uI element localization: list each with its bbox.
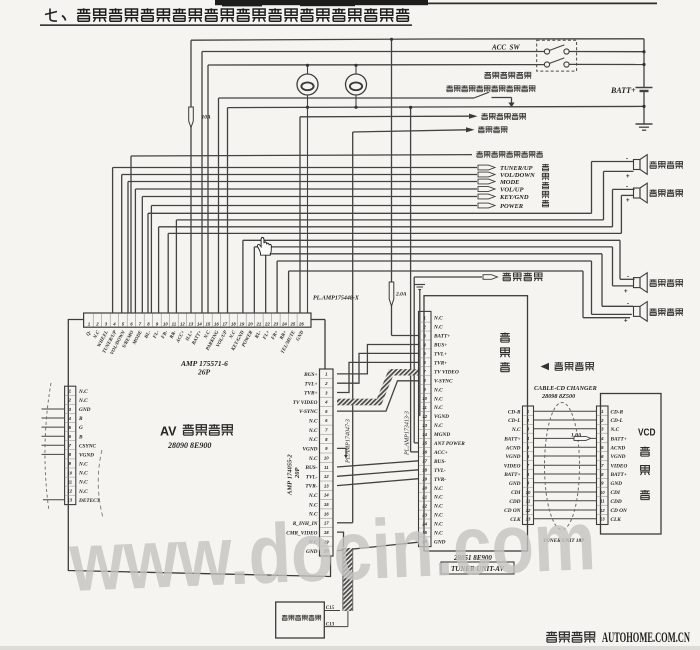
svg-text:BUS-: BUS- <box>433 459 446 465</box>
svg-text:12: 12 <box>180 322 185 327</box>
svg-text:12: 12 <box>422 414 427 419</box>
svg-text:16: 16 <box>422 450 427 455</box>
svg-text:TV VIDEO: TV VIDEO <box>434 369 459 375</box>
svg-text:N.C: N.C <box>308 437 318 443</box>
svg-text:N.C: N.C <box>308 456 318 462</box>
svg-text:13: 13 <box>67 498 72 503</box>
svg-text:20: 20 <box>421 486 427 491</box>
svg-text:13: 13 <box>189 322 194 327</box>
svg-text:-: - <box>627 301 629 307</box>
svg-text:N.C: N.C <box>433 396 443 402</box>
svg-text:4: 4 <box>112 322 116 327</box>
svg-text:GND: GND <box>611 481 623 487</box>
svg-text:V-SYNC: V-SYNC <box>434 378 453 384</box>
svg-text:BATT+: BATT+ <box>610 472 627 478</box>
svg-text:13: 13 <box>422 423 427 428</box>
svg-text:N.C: N.C <box>78 480 88 486</box>
svg-text:11: 11 <box>422 405 427 410</box>
svg-text:23: 23 <box>273 322 279 327</box>
svg-text:N.C: N.C <box>511 427 521 433</box>
svg-text:CLK: CLK <box>611 517 622 523</box>
svg-text:G: G <box>79 425 83 431</box>
svg-text:TVR-: TVR- <box>305 484 317 490</box>
svg-text:VCD: VCD <box>638 427 656 439</box>
svg-text:TVL-: TVL- <box>434 468 446 474</box>
svg-text:MGND: MGND <box>433 432 450 438</box>
svg-text:AMP 174055-2: AMP 174055-2 <box>287 454 294 496</box>
svg-text:CDI: CDI <box>611 490 621 496</box>
svg-text:ANT POWER: ANT POWER <box>433 441 465 447</box>
svg-text:28098 8Z500: 28098 8Z500 <box>541 393 575 400</box>
svg-text:PL.AMP175448-X: PL.AMP175448-X <box>313 296 360 302</box>
svg-text:2.0A: 2.0A <box>395 292 407 298</box>
svg-text:TUNER/UP: TUNER/UP <box>500 165 534 172</box>
svg-text:+: + <box>626 174 630 180</box>
svg-text:-: - <box>627 274 629 280</box>
svg-text:19: 19 <box>422 477 427 482</box>
svg-text:BUS+: BUS+ <box>433 343 447 349</box>
svg-text:25: 25 <box>290 322 296 327</box>
svg-text:N.C: N.C <box>308 493 318 499</box>
svg-text:10: 10 <box>67 470 72 475</box>
svg-text:CD ON: CD ON <box>611 508 628 514</box>
svg-text:VGND: VGND <box>79 453 94 459</box>
svg-text:VGND: VGND <box>611 454 626 460</box>
svg-text:B: B <box>78 434 83 440</box>
svg-text:18: 18 <box>422 468 427 473</box>
svg-text:VGND: VGND <box>302 447 317 453</box>
svg-text:TVR+: TVR+ <box>304 391 317 397</box>
svg-text:+: + <box>624 289 628 295</box>
svg-text:V-SYNC: V-SYNC <box>299 409 318 415</box>
svg-text:13: 13 <box>600 517 605 522</box>
svg-text:14: 14 <box>422 432 427 437</box>
svg-text:BATT+: BATT+ <box>433 334 450 340</box>
svg-text:CD-R: CD-R <box>611 409 624 415</box>
svg-text:GND: GND <box>509 481 521 487</box>
svg-text:KEY/GND: KEY/GND <box>499 194 529 201</box>
svg-text:28090 8E900: 28090 8E900 <box>167 441 211 450</box>
svg-text:21: 21 <box>421 494 427 499</box>
svg-text:CSYNC: CSYNC <box>79 443 97 449</box>
svg-text:+: + <box>624 319 628 325</box>
svg-text:CD-L: CD-L <box>508 418 520 424</box>
svg-text:-: - <box>626 156 628 162</box>
svg-text:15: 15 <box>206 322 211 327</box>
svg-text:AUTOHOME.COM.CN: AUTOHOME.COM.CN <box>602 630 690 646</box>
svg-text:TVR-: TVR- <box>434 477 446 483</box>
svg-text:VIDEO: VIDEO <box>504 463 521 469</box>
svg-text:N.C: N.C <box>433 405 443 411</box>
svg-text:CD-L: CD-L <box>611 418 623 424</box>
svg-text:N.C: N.C <box>78 389 88 395</box>
svg-text:20: 20 <box>247 322 253 327</box>
svg-text:CDD: CDD <box>611 499 622 505</box>
svg-text:12: 12 <box>67 489 72 494</box>
svg-text:GND: GND <box>79 407 91 413</box>
svg-text:N.C: N.C <box>78 398 88 404</box>
svg-text:22: 22 <box>264 322 270 327</box>
svg-text:N.C: N.C <box>433 387 443 393</box>
svg-text:N.C: N.C <box>78 462 88 468</box>
svg-text:BATT+: BATT+ <box>610 437 627 443</box>
svg-text:12: 12 <box>600 508 605 513</box>
svg-text:POWER: POWER <box>500 203 524 210</box>
svg-text:DETECT: DETECT <box>78 498 101 504</box>
svg-text:AV: AV <box>160 425 177 439</box>
svg-text:TVL-: TVL- <box>306 474 318 480</box>
svg-text:14: 14 <box>324 493 329 498</box>
svg-text:+: + <box>626 198 630 204</box>
svg-text:BATT+: BATT+ <box>503 437 520 443</box>
svg-text:10: 10 <box>526 490 531 495</box>
svg-text:MODE: MODE <box>499 179 520 186</box>
svg-text:ACC SW: ACC SW <box>491 44 520 52</box>
svg-text:-: - <box>626 184 628 190</box>
svg-text:BUS-: BUS- <box>304 465 317 471</box>
svg-text:CABLE-CD CHANGER: CABLE-CD CHANGER <box>534 385 597 392</box>
svg-text:VOL/UP: VOL/UP <box>500 186 525 193</box>
svg-text:BUS+: BUS+ <box>303 372 317 378</box>
svg-text:ACC+: ACC+ <box>433 450 448 456</box>
svg-text:12: 12 <box>324 474 329 479</box>
svg-text:PL.AMP173413-3: PL.AMP173413-3 <box>404 411 411 456</box>
svg-text:26P: 26P <box>197 368 211 377</box>
svg-text:17: 17 <box>223 322 228 327</box>
svg-text:2: 2 <box>95 322 99 327</box>
svg-text:24: 24 <box>281 322 287 327</box>
svg-text:N.C: N.C <box>433 486 443 492</box>
svg-text:21: 21 <box>256 322 262 327</box>
svg-text:13: 13 <box>324 483 329 488</box>
svg-text:BATT+: BATT+ <box>610 86 636 95</box>
svg-text:VGND: VGND <box>505 454 520 460</box>
svg-text:10: 10 <box>422 396 427 401</box>
svg-text:N.C: N.C <box>78 471 88 477</box>
svg-text:14: 14 <box>197 322 202 327</box>
svg-text:16: 16 <box>214 322 219 327</box>
svg-text:N.C: N.C <box>433 423 443 429</box>
svg-text:VOL/DOWN: VOL/DOWN <box>500 172 535 179</box>
svg-text:CD-R: CD-R <box>508 409 521 415</box>
svg-text:N.C: N.C <box>433 325 443 331</box>
svg-text:TVL+: TVL+ <box>434 352 447 358</box>
svg-text:ACND: ACND <box>505 445 521 451</box>
svg-text:15: 15 <box>422 441 427 446</box>
svg-text:11: 11 <box>68 479 73 484</box>
svg-text:N.C: N.C <box>433 316 443 322</box>
svg-text:17: 17 <box>422 459 427 464</box>
svg-text:R: R <box>79 416 83 422</box>
svg-text:TVR+: TVR+ <box>434 361 447 367</box>
svg-text:19: 19 <box>240 322 245 327</box>
svg-text:11: 11 <box>324 465 329 470</box>
svg-text:N.C: N.C <box>308 428 318 434</box>
svg-text:N.C: N.C <box>78 489 88 495</box>
svg-text:18: 18 <box>231 322 236 327</box>
svg-text:VIDEO: VIDEO <box>611 463 628 469</box>
svg-text:10: 10 <box>600 490 605 495</box>
svg-text:11: 11 <box>172 322 177 327</box>
svg-text:10: 10 <box>324 456 329 461</box>
svg-text:TVL+: TVL+ <box>304 381 317 387</box>
svg-text:BATT+: BATT+ <box>503 472 520 478</box>
svg-text:ACND: ACND <box>610 445 626 451</box>
svg-text:VGND: VGND <box>434 414 449 420</box>
svg-text:11: 11 <box>600 499 605 504</box>
svg-text:10: 10 <box>163 322 168 327</box>
svg-text:N.C: N.C <box>308 419 318 425</box>
svg-text:26: 26 <box>298 322 304 327</box>
svg-text:N.C: N.C <box>610 427 620 433</box>
svg-text:20P: 20P <box>294 467 301 480</box>
svg-text:TV VIDEO: TV VIDEO <box>293 400 318 406</box>
svg-text:10A: 10A <box>202 115 212 121</box>
